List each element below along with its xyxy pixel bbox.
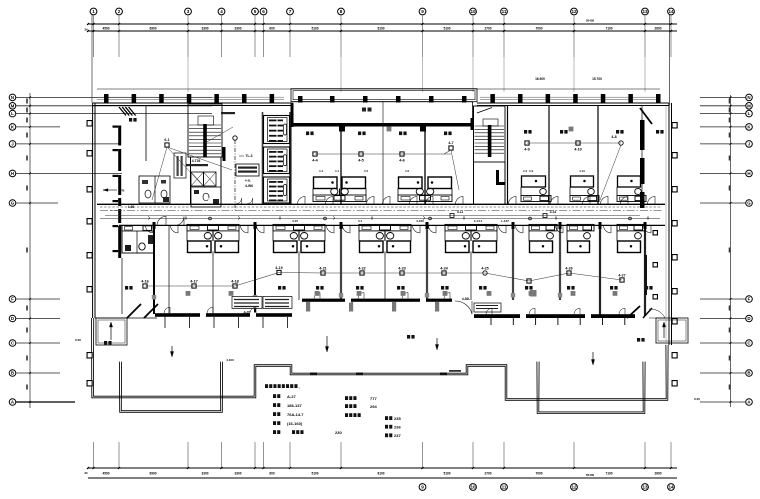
svg-text:4-14: 4-14 <box>550 210 557 214</box>
svg-text:7: 7 <box>289 9 292 14</box>
svg-text:M: M <box>11 103 15 108</box>
svg-text:4-T26: 4-T26 <box>192 159 201 163</box>
svg-text:3#: 3# <box>84 471 88 475</box>
svg-text:9: 9 <box>421 485 424 490</box>
svg-text:76A-14.7: 76A-14.7 <box>287 412 304 417</box>
svg-text:13: 13 <box>642 485 648 490</box>
svg-text:4-16: 4-16 <box>141 280 149 284</box>
svg-text:14: 14 <box>668 485 674 490</box>
svg-text:15.700: 15.700 <box>592 77 602 81</box>
svg-text:2600: 2600 <box>654 26 661 30</box>
svg-text:4-20: 4-20 <box>244 311 251 315</box>
svg-text:N: N <box>11 95 14 100</box>
svg-text:4-4: 4-4 <box>312 159 318 163</box>
svg-text:7100: 7100 <box>605 26 612 30</box>
svg-text:4-23: 4-23 <box>398 267 406 271</box>
svg-text:4-17: 4-17 <box>190 280 198 284</box>
svg-text:16.900: 16.900 <box>535 77 545 81</box>
svg-text:4: 4 <box>220 9 223 14</box>
svg-text:294: 294 <box>370 404 377 409</box>
svg-text:4-7: 4-7 <box>448 141 453 145</box>
svg-text:4-8: 4-8 <box>611 135 616 139</box>
svg-text:N: N <box>747 95 750 100</box>
svg-text:11: 11 <box>502 485 507 490</box>
svg-text:3300: 3300 <box>234 472 241 476</box>
svg-text:4-W6: 4-W6 <box>245 184 253 188</box>
svg-text:4-24: 4-24 <box>440 267 448 271</box>
svg-text:4-21: 4-21 <box>319 267 327 271</box>
svg-text:10: 10 <box>470 485 476 490</box>
svg-text:2700: 2700 <box>484 26 491 30</box>
svg-text:186-137: 186-137 <box>287 403 302 408</box>
svg-text:8: 8 <box>340 9 343 14</box>
svg-text:4-22: 4-22 <box>358 267 366 271</box>
svg-text:TL-3: TL-3 <box>246 154 253 158</box>
svg-text:F: F <box>11 297 14 302</box>
svg-text:8100: 8100 <box>377 26 384 30</box>
svg-text:6.00: 6.00 <box>694 397 700 401</box>
svg-text:2700: 2700 <box>484 472 491 476</box>
svg-text:4-9: 4-9 <box>529 169 534 173</box>
svg-text:F: F <box>748 297 751 302</box>
svg-text:2: 2 <box>118 9 121 14</box>
svg-text:55400: 55400 <box>586 19 595 23</box>
svg-text:A-27: A-27 <box>287 394 296 399</box>
svg-text:4-19: 4-19 <box>275 266 282 270</box>
svg-text:12: 12 <box>571 485 577 490</box>
svg-text:5: 5 <box>254 9 257 14</box>
svg-text:B: B <box>11 371 14 376</box>
svg-text:6.00: 6.00 <box>75 338 81 342</box>
svg-text:3: 3 <box>187 9 190 14</box>
svg-text:B: B <box>747 371 750 376</box>
svg-text:3300: 3300 <box>201 26 208 30</box>
svg-text:4-10: 4-10 <box>574 148 582 152</box>
svg-text:4-6: 4-6 <box>399 159 405 163</box>
svg-text:55400: 55400 <box>586 473 595 477</box>
svg-text:10: 10 <box>470 9 476 14</box>
svg-text:4-25: 4-25 <box>481 267 488 271</box>
svg-text:L-137: L-137 <box>501 219 509 223</box>
svg-text:4-14.1: 4-14.1 <box>474 219 483 223</box>
svg-text:7000: 7000 <box>535 472 542 476</box>
svg-text:4-4: 4-4 <box>319 169 324 173</box>
svg-text:4-18: 4-18 <box>231 280 239 284</box>
svg-text:G: G <box>11 201 15 206</box>
svg-text:237: 237 <box>394 433 401 438</box>
svg-text:4-160: 4-160 <box>416 219 424 223</box>
svg-text:L: L <box>11 111 14 116</box>
svg-text:L: L <box>748 111 751 116</box>
svg-text:5100: 5100 <box>443 472 450 476</box>
svg-text:2600: 2600 <box>654 472 661 476</box>
svg-text:4-6: 4-6 <box>405 169 410 173</box>
svg-text:4-10: 4-10 <box>579 169 585 173</box>
svg-text:6: 6 <box>262 9 265 14</box>
svg-text:777: 777 <box>370 396 377 401</box>
svg-text:4-1: 4-1 <box>335 169 340 173</box>
svg-text:7000: 7000 <box>535 26 542 30</box>
svg-text:4.100: 4.100 <box>226 358 234 362</box>
svg-text:4-26L: 4-26L <box>462 297 470 301</box>
svg-text:12: 12 <box>571 9 577 14</box>
svg-text:1%: 1% <box>120 189 125 193</box>
svg-text:3#: 3# <box>84 28 88 32</box>
svg-text:(16-160): (16-160) <box>287 421 303 426</box>
svg-text:M: M <box>747 103 751 108</box>
svg-text:4-2: 4-2 <box>523 169 528 173</box>
svg-text:3300: 3300 <box>234 26 241 30</box>
svg-text:4-5: 4-5 <box>364 169 369 173</box>
svg-text:5100: 5100 <box>311 26 318 30</box>
svg-text:D: D <box>11 316 14 321</box>
svg-text:4-15: 4-15 <box>292 219 298 223</box>
svg-text:4-11: 4-11 <box>457 210 463 214</box>
svg-text:4500: 4500 <box>102 26 109 30</box>
svg-text:9: 9 <box>421 9 424 14</box>
svg-text:235: 235 <box>394 416 401 421</box>
svg-text:14: 14 <box>668 9 674 14</box>
svg-text:230: 230 <box>335 430 342 435</box>
svg-text:4500: 4500 <box>102 472 109 476</box>
svg-text:7100: 7100 <box>605 472 612 476</box>
svg-text:4-26: 4-26 <box>565 267 572 271</box>
svg-text:600: 600 <box>269 472 275 476</box>
svg-text:600: 600 <box>269 26 275 30</box>
svg-text:5100: 5100 <box>443 26 450 30</box>
svg-text:8100: 8100 <box>377 472 384 476</box>
svg-text:4-7: 4-7 <box>205 197 210 201</box>
svg-text:13: 13 <box>642 9 648 14</box>
svg-text:1: 1 <box>92 9 95 14</box>
svg-text:4-1: 4-1 <box>358 219 363 223</box>
svg-text:H: H <box>11 171 14 176</box>
svg-text:11: 11 <box>502 9 507 14</box>
svg-text:4-2L: 4-2L <box>245 179 251 183</box>
svg-text:D: D <box>747 316 750 321</box>
svg-text:4-5: 4-5 <box>358 159 364 163</box>
svg-text:6-1: 6-1 <box>164 138 169 142</box>
svg-text:4-9: 4-9 <box>524 148 530 152</box>
svg-text:6900: 6900 <box>149 472 156 476</box>
svg-text:5100: 5100 <box>311 472 318 476</box>
svg-text:G: G <box>747 201 751 206</box>
svg-text:4-27: 4-27 <box>618 274 625 278</box>
svg-text:,: , <box>298 384 299 389</box>
svg-text:H: H <box>747 171 750 176</box>
svg-text:3300: 3300 <box>201 472 208 476</box>
svg-text:6900: 6900 <box>149 26 156 30</box>
svg-text:236: 236 <box>394 425 401 430</box>
